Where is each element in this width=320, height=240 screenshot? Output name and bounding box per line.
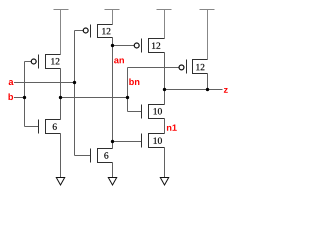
nmos M8 width label 10 bbox=[154, 137, 162, 143]
pmos M4 width label 12 bbox=[196, 64, 204, 70]
ground symbol 2 bbox=[108, 178, 116, 186]
vdd supply T3 bbox=[157, 10, 172, 39]
label n1 bbox=[167, 124, 177, 130]
wire a to M2 gate bbox=[75, 30, 84, 32]
label a bbox=[9, 80, 14, 85]
wire M2 drain bbox=[112, 38, 114, 46]
pmos M3 body bbox=[142, 39, 165, 53]
nmos M5 body bbox=[39, 120, 61, 134]
wire node bn vertical lower bbox=[127, 98, 129, 112]
label an bbox=[114, 58, 124, 63]
wire bn to M7 gate bbox=[128, 111, 142, 113]
junction dot an bottom bbox=[111, 140, 114, 143]
wire node bn vertical upper bbox=[127, 68, 129, 98]
wire node z horizontal bbox=[165, 89, 223, 91]
pmos M2 width label 12 bbox=[102, 28, 110, 34]
junction dot an top bbox=[111, 44, 114, 47]
junction dot a bbox=[73, 81, 76, 84]
junction dot z left bbox=[163, 88, 166, 91]
nmos M7 width label 10 bbox=[154, 108, 162, 114]
wire b to M1 gate bbox=[25, 61, 32, 63]
junction dot bn right bbox=[126, 96, 129, 99]
junction dot bn left bbox=[59, 96, 62, 99]
pmos M3 gate bubble bbox=[134, 43, 139, 48]
label z bbox=[224, 88, 228, 93]
wire node n1 bbox=[164, 119, 166, 134]
wire b vertical bbox=[24, 62, 26, 127]
wire b input bbox=[14, 97, 25, 99]
wire node an vertical bbox=[112, 46, 114, 142]
vdd supply T1 bbox=[54, 10, 69, 55]
pmos M3 width label 12 bbox=[152, 43, 160, 49]
nmos M7 body bbox=[142, 105, 165, 119]
wire a vertical bbox=[74, 31, 76, 156]
label bn bbox=[129, 78, 139, 85]
wire M8 source to ground bbox=[164, 148, 166, 178]
junction dot b bbox=[23, 96, 26, 99]
nmos M6 body bbox=[91, 149, 113, 163]
wire M4 drain bbox=[207, 74, 209, 90]
ground symbol 3 bbox=[160, 178, 168, 186]
wire node an to M3 gate bbox=[113, 45, 135, 47]
junction dot z right bbox=[206, 88, 209, 91]
wire an into M6 bbox=[112, 142, 114, 149]
pmos M4 gate bubble bbox=[179, 65, 184, 70]
pmos M1 gate bubble bbox=[31, 59, 36, 64]
pmos M1 width label 12 bbox=[51, 58, 59, 64]
wire z into M7 bbox=[164, 90, 166, 105]
nmos M5 width label 6 bbox=[53, 124, 57, 130]
wire a to M6 gate bbox=[75, 155, 91, 157]
vdd supply T2 bbox=[105, 10, 120, 25]
wire M5 source to ground bbox=[60, 134, 62, 178]
wire M6 source to ground bbox=[112, 163, 114, 178]
nmos M8 body bbox=[142, 134, 165, 148]
wire node bn horizontal bbox=[61, 97, 128, 99]
wire M3 drain bbox=[164, 53, 166, 90]
vdd supply T4 bbox=[200, 10, 215, 60]
wire a input bbox=[14, 82, 75, 84]
pmos M2 gate bubble bbox=[83, 28, 88, 33]
label b bbox=[8, 93, 13, 100]
wire b to M5 gate bbox=[25, 126, 39, 128]
wire an to M8 gate bbox=[113, 141, 142, 143]
wire M1 drain bbox=[60, 69, 62, 98]
pmos M4 body bbox=[187, 60, 208, 74]
pmos M1 body bbox=[39, 55, 61, 69]
ground symbol 1 bbox=[56, 178, 64, 186]
wire bn to M4 gate bbox=[128, 67, 180, 69]
wire M5 drain up bbox=[60, 98, 62, 120]
pmos M2 body bbox=[91, 25, 113, 38]
nmos M6 width label 6 bbox=[104, 152, 108, 158]
